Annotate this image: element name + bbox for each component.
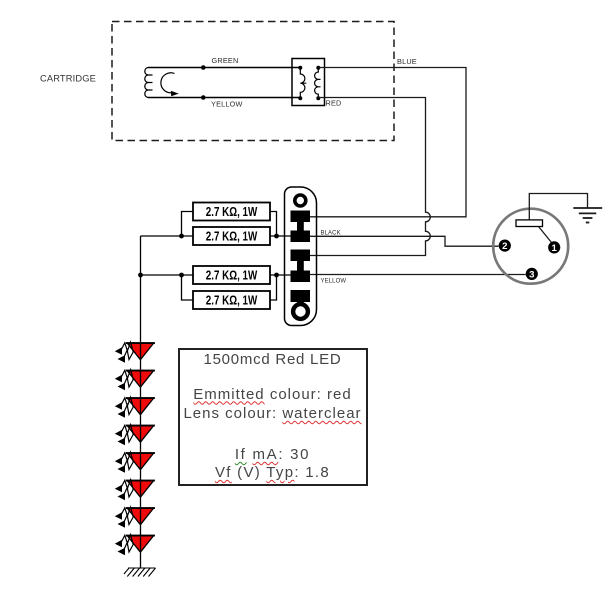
svg-text:2.7 KΩ, 1W: 2.7 KΩ, 1W <box>206 206 258 220</box>
svg-text:BLUE: BLUE <box>397 57 417 66</box>
svg-text:2.7 KΩ, 1W: 2.7 KΩ, 1W <box>206 269 258 283</box>
svg-text:YELLOW: YELLOW <box>211 99 243 108</box>
svg-text:2: 2 <box>502 241 507 252</box>
svg-text:2.7 KΩ, 1W: 2.7 KΩ, 1W <box>206 294 258 308</box>
svg-text:YELLOW: YELLOW <box>321 279 347 285</box>
svg-text:BLACK: BLACK <box>321 231 341 237</box>
svg-text:1: 1 <box>552 243 558 254</box>
svg-text:2.7 KΩ, 1W: 2.7 KΩ, 1W <box>206 230 258 244</box>
svg-text:3: 3 <box>529 269 534 280</box>
svg-text:CARTRIDGE: CARTRIDGE <box>40 74 96 84</box>
svg-text:GREEN: GREEN <box>212 56 239 65</box>
svg-text:RED: RED <box>326 99 342 108</box>
